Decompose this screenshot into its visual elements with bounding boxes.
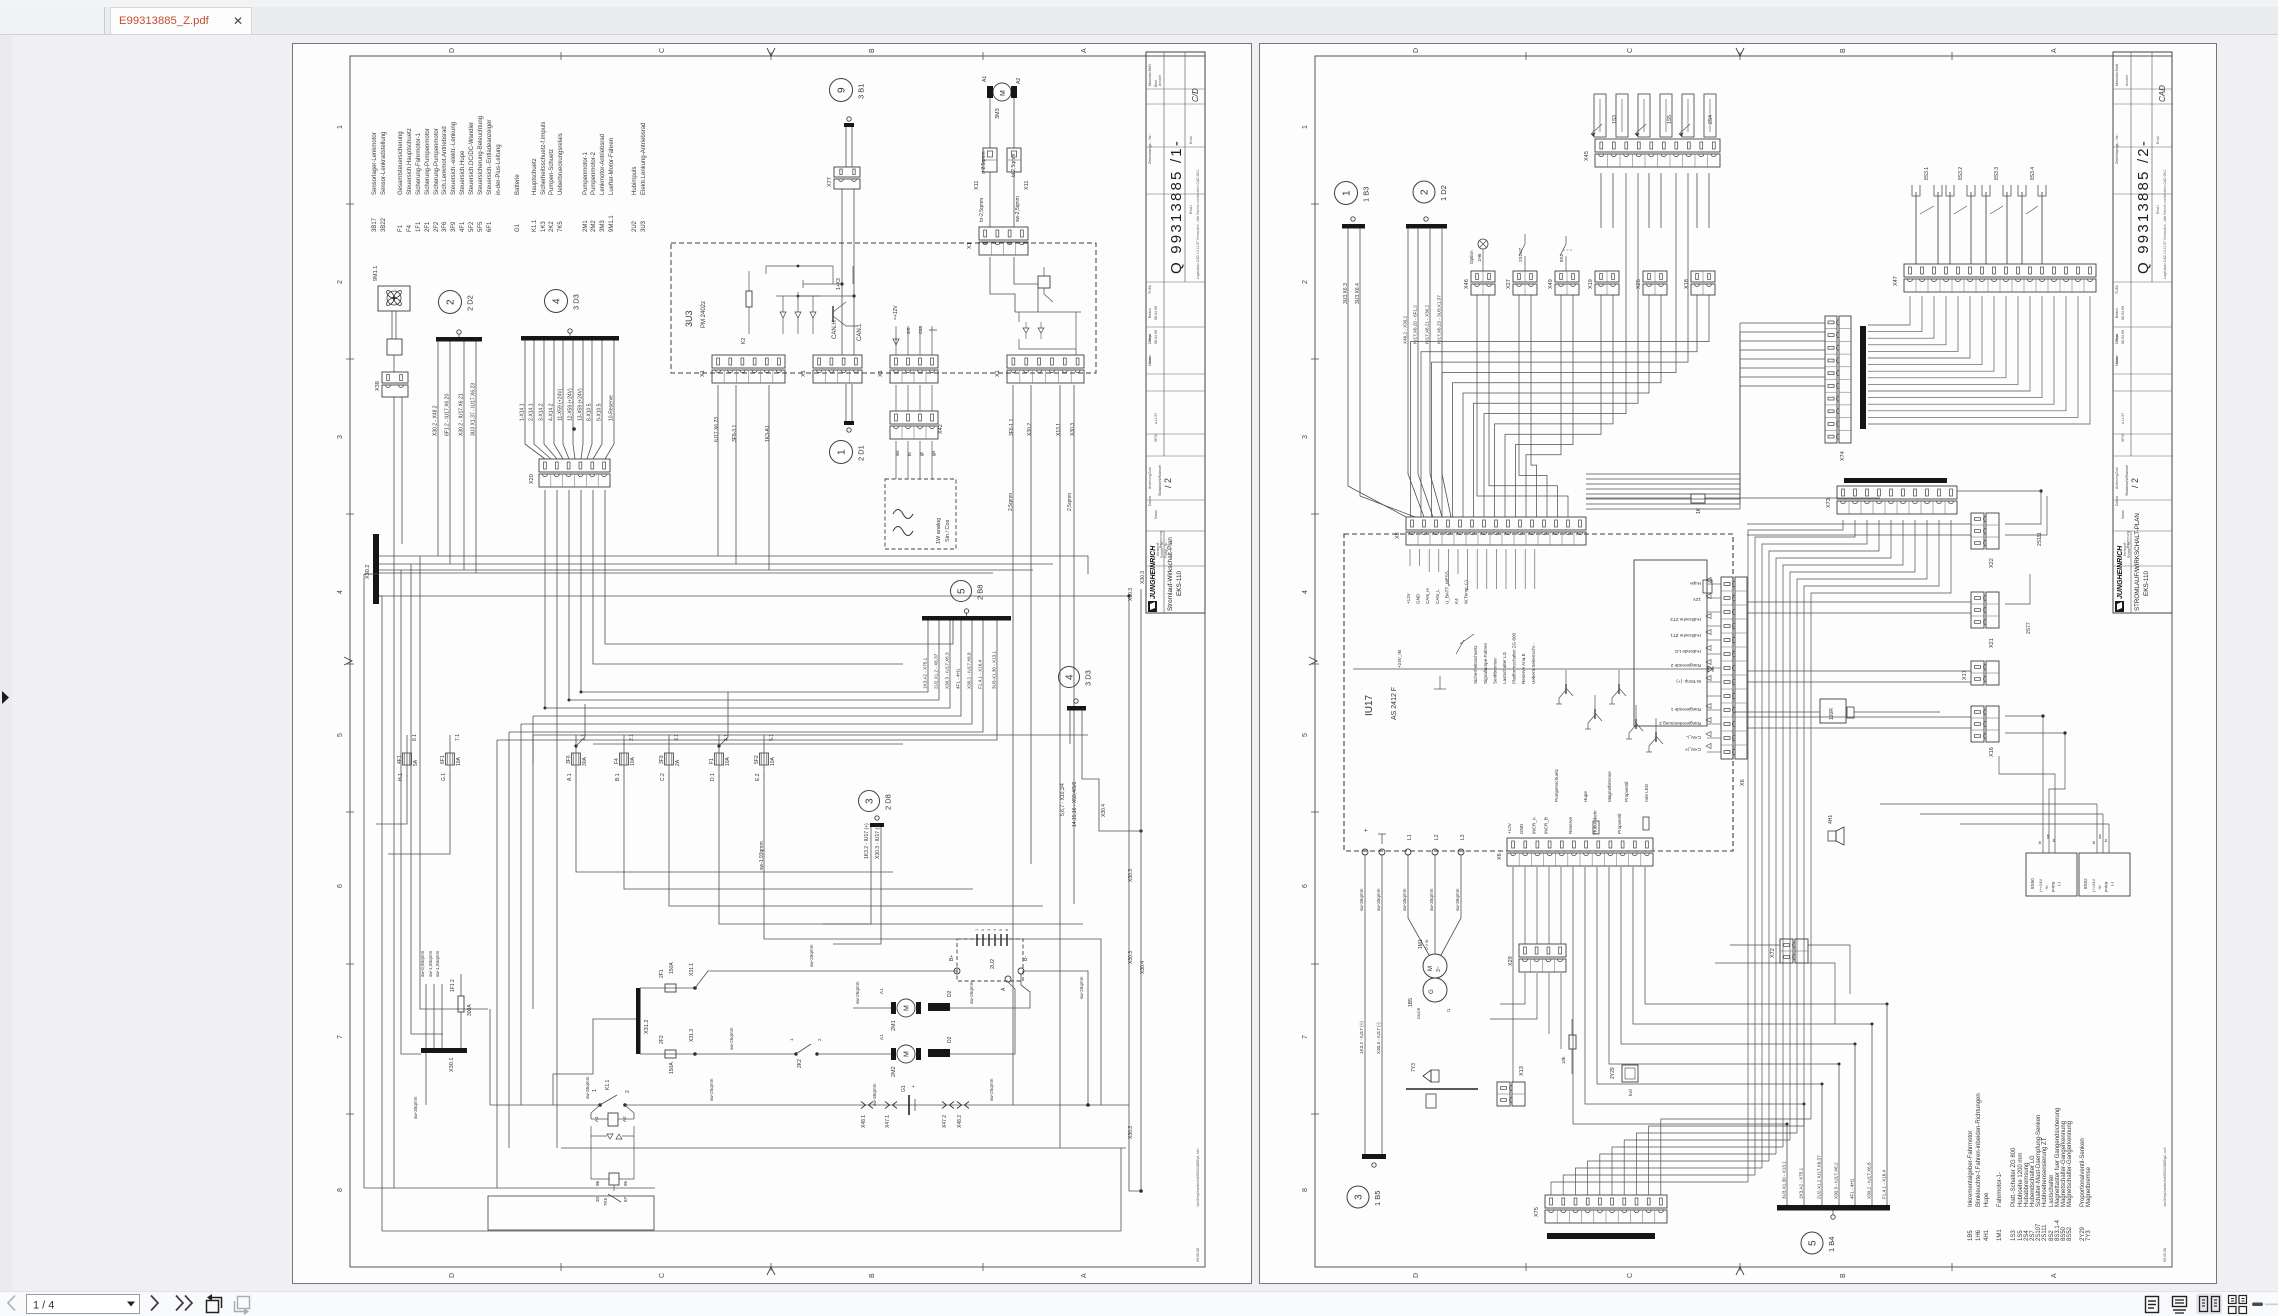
svg-text:1K3-A1: 1K3-A1 [765,425,771,442]
svg-text:Magnetbremse: Magnetbremse [2086,1166,2092,1207]
svg-text:D: D [449,48,456,53]
svg-text:/usr3/rep/hantechd/99313885/q2: /usr3/rep/hantechd/99313885/q2-.sch [2163,1147,2167,1207]
connector X1 under 3M3 [979,227,1028,240]
wire 11-X59 (+24V) [563,341,569,460]
svg-text:sw-2,5qmm: sw-2,5qmm [1015,196,1021,222]
wire 13-X59 (+24V) [581,341,583,460]
svg-text:2F1: 2F1 [659,969,665,978]
svg-text:2 B8: 2 B8 [976,585,985,600]
frame centre arrows [767,48,775,56]
svg-text:X21: X21 [1989,638,1995,648]
svg-text:L2: L2 [1434,834,1440,840]
svg-text:9: 9 [837,87,848,93]
svg-text:F4: F4 [407,224,413,232]
X6 column internal stubs [1707,583,1721,585]
svg-text:D: D [1413,48,1420,53]
wires 2U2 to risers [1024,971,1088,1105]
svg-text:Senkbremse: Senkbremse [1492,658,1497,684]
svg-text:Plattformschalter ZG 800: Plattformschalter ZG 800 [1512,632,1517,684]
svg-text:X20: X20 [529,474,535,484]
fuse 3F9 [665,753,674,765]
svg-text:CAN_L: CAN_L [1686,735,1701,740]
svg-text:sw-0,93qmm: sw-0,93qmm [420,951,425,977]
svg-text:7.1: 7.1 [455,734,461,741]
svg-text:IU17: IU17 [1364,694,1375,716]
svg-text:Steuersich.DC/DC-Wandler: Steuersich.DC/DC-Wandler [469,122,475,195]
svg-text:7K5: 7K5 [603,1197,608,1206]
grid layout icon [2229,1296,2237,1304]
fuse 2F1 150A [640,987,695,989]
svg-text:Steuersich.Hupe: Steuersich.Hupe [460,150,466,195]
risers from bus to lower left [363,574,365,1188]
svg-text:3F6-1.1: 3F6-1.1 [1009,419,1015,436]
svg-text:5F2: 5F2 [469,221,475,232]
connector X72 [1780,939,1793,963]
bus bar X30.2 vertical [373,534,379,604]
switch row 1S3 1S5 2S4 above X45 [1594,94,1606,137]
svg-text:3U3-X1.30 - X13.1: 3U3-X1.30 - X13.1 [992,651,997,689]
fuse F1 [715,753,724,765]
feeder frame left [533,734,1088,736]
svg-text:3 D3: 3 D3 [572,294,581,310]
frame centre arrows [1736,48,1744,56]
svg-text:12-X59 (+24V): 12-X59 (+24V) [568,388,574,421]
svg-text:Luefter-Motor-Fahren: Luefter-Motor-Fahren [609,138,615,195]
svg-text:Lagerplatz CAD 19.11.97 Vertr: Lagerplatz CAD 19.11.97 Vertraulich - Al… [1196,169,1200,279]
svg-text:CAN_H: CAN_H [1685,747,1701,752]
svg-text:B: B [1840,1273,1847,1278]
svg-text:2K2: 2K2 [797,1059,803,1068]
svg-text:X38: X38 [375,381,381,391]
svg-text:Hubhoehe ZT1: Hubhoehe ZT1 [1670,633,1701,638]
svg-text:A: A [1081,48,1088,53]
svg-text:8S2: 8S2 [1559,253,1564,262]
suppressor diodes [1023,328,1029,333]
svg-text:X73: X73 [1826,498,1832,508]
svg-text:X1: X1 [801,370,807,377]
svg-text:SP08: SP08 [2121,434,2125,442]
svg-text:13-X59 (+24V): 13-X59 (+24V) [578,388,584,421]
title block [1146,52,1205,613]
svg-text:3~: 3~ [1436,966,1442,972]
svg-text:X30.2 - IU17.X6.21: X30.2 - IU17.X6.21 [459,393,465,436]
svg-text:3 B1: 3 B1 [857,84,866,99]
svg-text:Hubimpuls: Hubimpuls [632,167,638,195]
svg-text:X46: X46 [1464,279,1470,289]
sheet ref circle 1 (1 B3) [1335,182,1358,205]
svg-text:Propventil: Propventil [1624,782,1629,802]
two page layout icon (active) [2196,1294,2222,1315]
svg-text:1F1: 1F1 [416,221,422,232]
svg-text:G.1: G.1 [441,773,447,781]
svg-text:2S4: 2S4 [1708,115,1714,124]
svg-text:sw-35qmm: sw-35qmm [1359,888,1364,911]
sheet ref circle 5 (2 B8) [951,581,972,602]
connector X45 [1595,139,1720,152]
svg-text:1S5: 1S5 [1667,115,1673,124]
svg-text:M: M [904,1005,911,1011]
bus bar X31.2 [636,988,641,1054]
last page chevrons [176,1296,183,1311]
svg-text:3F9: 3F9 [451,221,457,232]
fuse feeders [376,775,407,824]
svg-text:2: 2 [817,1038,822,1041]
svg-text:X30.2: X30.2 [1027,423,1033,436]
svg-text:X6: X6 [1497,853,1503,860]
svg-text:X18: X18 [1684,279,1690,289]
connector X47 [1904,264,2096,277]
svg-text:D2: D2 [947,990,953,997]
hub pulse sensor 2U2 [957,939,1023,981]
svg-text:Sicherheitsschuetz-f.Impuls: Sicherheitsschuetz-f.Impuls [541,122,547,195]
svg-text:4: 4 [1302,590,1309,594]
svg-text:X47.1: X47.1 [885,1115,891,1128]
svg-text:X27: X27 [1506,279,1512,289]
svg-text:2 D8: 2 D8 [884,794,893,810]
svg-text:X77: X77 [827,177,833,187]
Jungheinrich logo [1148,601,1157,612]
wires above X75 bottom [1551,1182,1748,1195]
svg-text:11-X59 (+24V): 11-X59 (+24V) [558,388,564,421]
svg-text:sw-1,93qmm: sw-1,93qmm [428,951,433,977]
svg-text:C: C [659,48,666,53]
K1.1 coil [591,1105,600,1119]
inline connectors X11 [989,98,991,148]
svg-text:EKS-110: EKS-110 [1176,570,1183,596]
svg-text:K1.1: K1.1 [532,219,538,232]
svg-text:Tr-Ek: Tr-Ek [1148,285,1152,294]
svg-text:8S3.4: 8S3.4 [2030,167,2036,180]
svg-text:GND: GND [1519,823,1524,834]
sheet ref circle 3 (2 D8) [859,791,880,812]
svg-text:6: 6 [1005,929,1009,931]
svg-text:4-X14.2: 4-X14.2 [549,403,555,421]
connectors X46 X27 X49 X19 X25 X18 [1471,271,1495,282]
svg-text:1W analog: 1W analog [936,518,942,544]
sheet ref circle 9 (3 B1) [830,79,853,102]
wire X31.3 to 2K2 [695,1053,796,1055]
svg-text:sin: sin [906,327,912,334]
fuse F4 [620,753,629,765]
connector X20 [539,459,610,472]
svg-text:30: 30 [595,1196,600,1202]
wires + - to bottom bar [1364,855,1366,1154]
svg-text:A1: A1 [982,76,988,82]
svg-text:IU17.X6.23: IU17.X6.23 [714,417,720,442]
battery feed wire with end bars [847,117,851,121]
svg-text:Ueberbrueckungsrelais: Ueberbrueckungsrelais [558,133,564,195]
connector X73 with bar [1844,478,1947,483]
svg-text:Batterie: Batterie [515,174,521,195]
svg-text:4F1: 4F1 [460,221,466,232]
svg-text:10A: 10A [456,756,462,766]
svg-text:X30.3 - IU17 (-): X30.3 - IU17 (-) [1376,1022,1381,1054]
svg-text:/ 2: / 2 [2130,478,2140,488]
wire X30.4 riser [1140,589,1142,1191]
svg-text:AS 2412 F: AS 2412 F [1391,687,1398,720]
svg-text:6F1: 6F1 [487,221,493,232]
valve 2Y29 [1622,1065,1638,1082]
svg-text:sw-25qmm: sw-25qmm [969,981,974,1004]
svg-text:2U2: 2U2 [632,220,638,232]
svg-text:7: 7 [1302,1035,1309,1039]
svg-text:95: 95 [623,1180,628,1186]
sheet ref circle 2 (2 D2) [439,291,462,314]
wire X30.3 - IU17.X6.2 [1838,1064,1840,1205]
sin/cos analog box [885,479,956,549]
svg-text:sw-25qmm: sw-25qmm [809,944,814,967]
svg-text:bvd: bvd [1628,1089,1633,1096]
svg-text:sw-25qmm: sw-25qmm [1079,976,1084,999]
svg-text:4F1: 4F1 [397,755,403,764]
svg-text:10A: 10A [630,756,636,766]
wire X30.2 - IU17.X6.21 [463,342,465,571]
svg-text:ws: ws [895,450,900,456]
schematic page 1 [292,43,1252,1284]
svg-text:Statusschl/Klassel: Statusschl/Klassel [1158,465,1162,496]
svg-text:3F6: 3F6 [566,755,572,764]
fuse 1F1 300A [458,996,464,1012]
fuse 5F2 [760,753,769,765]
svg-text:cos: cos [918,326,924,334]
wire 4-X14.2 [554,341,563,460]
wires below X20 [544,490,546,708]
svg-text:X1: X1 [967,242,973,249]
svg-text:Pumpenmotor-2: Pumpenmotor-2 [591,151,597,195]
steering motor 3M3 [993,83,1011,101]
svg-text:/usr3/rep/hantechd/99313885/pl: /usr3/rep/hantechd/99313885/pl-.sch [1196,1148,1200,1207]
svg-text:X30.1: X30.1 [449,1058,455,1072]
svg-text:+: + [1364,828,1370,832]
svg-text:ErsU: ErsU [1188,205,1193,214]
svg-text:2Y29: 2Y29 [1610,1067,1616,1079]
wire 4F1 - 4H1 [533,621,961,717]
svg-text:300A: 300A [467,1004,473,1016]
svg-text:1K3.A2 - X75.1: 1K3.A2 - X75.1 [1799,1167,1804,1199]
svg-text:8-X10.5: 8-X10.5 [587,403,593,421]
svg-text:CAN.L: CAN.L [857,323,863,341]
svg-text:bl: bl [2091,841,2096,844]
svg-text:2: 2 [625,1090,631,1093]
connector X13 [1497,1082,1510,1106]
svg-text:8S3.3: 8S3.3 [1994,167,2000,180]
svg-text:2M1: 2M1 [583,220,589,232]
svg-text:Fahrmotor-1-: Fahrmotor-1- [1997,1172,2003,1207]
svg-text:2F1: 2F1 [425,221,431,232]
svg-text:4F1 - 4H1: 4F1 - 4H1 [956,668,961,689]
browser tab bar [0,0,2278,34]
bus bar under circle 4 right [1067,706,1086,711]
svg-text:Magnetschalter-Gangerkennung: Magnetschalter-Gangerkennung [2067,1121,2073,1207]
svg-text:4: 4 [552,298,563,304]
inner option box [1634,560,1707,726]
svg-text:4H1: 4H1 [1984,1229,1990,1241]
svg-text:Stromlauf-Wirkschalt-Plan: Stromlauf-Wirkschalt-Plan [1167,537,1174,611]
svg-text:B: B [869,48,876,53]
connector X6 bottom [1507,838,1653,851]
svg-text:2-X14.1: 2-X14.1 [529,403,535,421]
svg-text:IU17.X6.21 - X30.2: IU17.X6.21 - X30.2 [1425,304,1430,344]
svg-text:F1: F1 [709,758,715,764]
gang detection switches 8S50 8S52 [2026,853,2077,896]
svg-text:X11: X11 [974,181,980,190]
zoom slider [2252,1303,2263,1307]
wires below X47 [1868,296,1910,325]
connector X29 [1519,944,1566,957]
svg-text:5: 5 [999,929,1003,931]
horn 4H1 [1828,831,1836,841]
svg-text:A1: A1 [879,1034,884,1040]
wire X30.2 - IU17.X6.8 [1871,1024,1873,1205]
svg-text:+b: +b [2044,885,2049,890]
svg-text:Hupe: Hupe [1690,581,1701,586]
svg-text:Datum: Datum [1148,334,1152,344]
svg-text:5: 5 [337,733,344,737]
svg-text:(-): (-) [2109,881,2114,886]
sheet ref circle 4 (3 D3) [545,290,568,313]
svg-text:1M1: 1M1 [1997,1229,2003,1241]
svg-text:sw-1,93qmm: sw-1,93qmm [435,951,440,977]
sidebar expand arrow [0,655,14,715]
svg-text:4F1 - 4H1: 4F1 - 4H1 [1850,1178,1855,1199]
wire F1.4.1 - X16.4 [509,621,983,733]
svg-text:9M1.1: 9M1.1 [609,215,615,232]
svg-text:ErsU: ErsU [2155,205,2160,214]
svg-text:X74: X74 [1840,451,1846,461]
svg-text:sw-25qmm: sw-25qmm [855,981,860,1004]
svg-text:X13: X13 [1519,1066,1525,1076]
svg-text:87: 87 [623,1196,628,1202]
wires X16 to 8S50 8S52 [2005,716,2043,853]
bus bar X30.2 distribution (2 D2) [436,337,482,342]
next page chevron [151,1296,158,1311]
connector X74 [1825,316,1837,443]
svg-text:gn: gn [931,450,936,456]
svg-text:K2: K2 [741,338,747,344]
svg-text:3U3.X1.30 - X13.1: 3U3.X1.30 - X13.1 [1782,1161,1787,1199]
svg-text:Platt.-Schalter ZG 800: Platt.-Schalter ZG 800 [2011,1147,2017,1207]
svg-text:2A: 2A [675,759,681,766]
svg-text:3 D3: 3 D3 [1084,670,1093,686]
svg-text:t1: t1 [1446,1008,1451,1012]
svg-text:8S50: 8S50 [2030,878,2035,889]
controller IU17 dashed enclosure [1344,534,1733,851]
svg-text:Elektr.Lenkung-Antriebsrad: Elektr.Lenkung-Antriebsrad [641,123,647,195]
svg-text:1: 1 [837,449,848,455]
svg-text:4: 4 [993,929,997,931]
svg-text:E.2: E.2 [755,773,761,781]
svg-text:3B17: 3B17 [372,217,378,232]
svg-text:C: C [1627,48,1634,53]
svg-text:A: A [1001,987,1007,991]
power terminals + - L1 L2 L3 [1362,849,1368,855]
wire 2U2-X1.2 IU17.X6.37 [1821,1084,1823,1205]
svg-text:3M3: 3M3 [600,220,606,232]
svg-text:Hupe: Hupe [1583,791,1588,802]
svg-text:Sensorlager-Lenkmotor: Sensorlager-Lenkmotor [372,132,378,195]
svg-text:1 B4: 1 B4 [1827,1237,1836,1252]
relay enclosure box [488,1196,654,1230]
svg-text:3: 3 [987,929,991,931]
svg-text:D.1: D.1 [710,773,716,781]
svg-text:EKS-110: EKS-110 [2143,570,2150,596]
connector X75 bottom [1545,1195,1667,1208]
svg-text:B: B [1840,48,1847,53]
connector X77 [834,167,860,177]
svg-text:1K: 1K [1696,507,1702,514]
svg-text:1H6: 1H6 [1477,253,1482,262]
svg-text:C/D: C/D [1191,88,1200,102]
svg-text:+24V_IN: +24V_IN [1397,650,1402,668]
svg-text:Sich.Lenkmot.Antriebsrad: Sich.Lenkmot.Antriebsrad [442,126,448,195]
svg-text:X30.2 - IU17.X6.8: X30.2 - IU17.X6.8 [1867,1162,1872,1199]
svg-text:1B5: 1B5 [1408,998,1414,1007]
connector X38 [382,372,408,383]
svg-text:2: 2 [1420,189,1431,195]
svg-text:06.04.99: 06.04.99 [2121,306,2125,320]
svg-text:X30.2 - X48.2: X30.2 - X48.2 [433,405,439,436]
contactor 2K2 contact [794,1052,797,1055]
svg-text:/ 2: / 2 [1163,478,1173,488]
svg-text:Hubumkehr: Hubumkehr [1592,810,1597,834]
wire X30.2 - X48.2 [437,342,439,557]
svg-text:D: D [449,1273,456,1278]
svg-text:Hupe: Hupe [1984,1192,1990,1207]
svg-text:X30.2 - IU17.X6.8: X30.2 - IU17.X6.8 [967,652,972,689]
svg-text:06.04.99: 06.04.99 [2121,330,2125,344]
option lamp 1H6 [1478,239,1488,249]
svg-text:2: 2 [337,280,344,284]
svg-text:F4: F4 [614,758,620,764]
svg-text:6F1.2 - IU17.X6.20: 6F1.2 - IU17.X6.20 [445,394,451,436]
X21 resistor [1703,580,1712,593]
svg-text:X29: X29 [1508,956,1514,966]
controller 3U3 dashed enclosure [671,243,1096,373]
svg-text:X49: X49 [1548,279,1554,289]
svg-text:(+>24V: (+>24V [2038,879,2043,892]
svg-text:3M3: 3M3 [995,108,1001,119]
resistor 10k [1569,1035,1576,1049]
svg-text:C: C [1627,1273,1634,1278]
svg-text:3: 3 [337,435,344,439]
svg-text:3: 3 [1354,1194,1365,1200]
svg-text:+: + [911,1085,917,1088]
pump motor 2M2 [897,1045,915,1063]
connectors X17 X16 [1971,661,1984,685]
svg-text:120R: 120R [1829,708,1835,720]
svg-text:X30.3: X30.3 [1128,951,1134,964]
svg-text:Datum: Datum [1148,496,1152,506]
svg-text:Option: Option [1469,250,1474,264]
svg-text:X30.3 - IU17.X6.2: X30.3 - IU17.X6.2 [1834,1162,1839,1199]
contactor K1.1 contacts [598,1103,602,1107]
svg-text:Magnetbremse: Magnetbremse [1607,771,1612,802]
3U3 transistor [832,306,834,322]
svg-text:X75: X75 [1534,1207,1540,1217]
svg-text:Name: Name [1148,355,1152,364]
svg-text:5: 5 [1808,1240,1819,1246]
svg-text:X30.3: X30.3 [1128,588,1134,601]
connector X1 (3U3 left) [712,355,785,368]
svg-text:10-Reserve: 10-Reserve [609,395,615,421]
svg-text:M: M [1000,90,1007,96]
wire 6F1.2 - IU17.X6.20 [449,342,451,565]
svg-text:1: 1 [975,929,979,931]
svg-text:Steuersicherung-Beleuchtung: Steuersicherung-Beleuchtung [478,116,484,195]
svg-text:X72: X72 [1770,948,1776,958]
svg-text:1 B5: 1 B5 [1373,1191,1382,1206]
wire 8-X10.5 [587,341,592,460]
